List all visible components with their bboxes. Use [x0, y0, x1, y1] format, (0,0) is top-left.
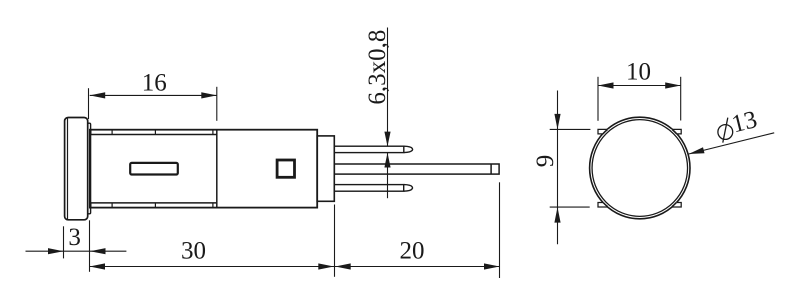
svg-text:6,3x0,8: 6,3x0,8	[364, 30, 391, 105]
body section divider	[216, 130, 218, 208]
faston terminal bottom	[334, 185, 412, 192]
anti-rotation lug upper-right	[671, 129, 682, 134]
dimension 3	[26, 220, 127, 271]
bezel step	[88, 123, 91, 214]
faston terminal top	[334, 146, 412, 152]
square window	[277, 160, 294, 177]
housing body	[90, 130, 317, 208]
dimension 20	[335, 182, 500, 278]
lens face line	[67, 118, 69, 219]
svg-text:16: 16	[142, 70, 167, 97]
ratchet band bottom line	[90, 202, 217, 204]
bezel inner circle	[592, 120, 688, 217]
lens flange (side view)	[65, 118, 88, 220]
rear collar	[317, 136, 334, 201]
anti-rotation lug lower-left	[598, 202, 609, 207]
diameter symbol	[718, 118, 733, 143]
bezel outer circle (front view)	[590, 117, 690, 219]
center terminal shaft	[334, 164, 499, 174]
svg-text:3: 3	[68, 224, 81, 251]
ratchet band top line	[90, 134, 217, 136]
dimension 6,3x0,8	[387, 28, 389, 199]
dimension 9	[550, 91, 591, 245]
svg-text:10: 10	[626, 58, 651, 85]
ratchet teeth ticks top	[91, 130, 213, 135]
svg-text:13: 13	[729, 106, 760, 138]
dimension 30	[90, 205, 335, 277]
anti-rotation lug lower-right	[670, 202, 681, 207]
diameter 13 leader	[689, 133, 775, 154]
svg-text:30: 30	[181, 238, 206, 265]
ratchet teeth ticks bottom	[91, 203, 213, 208]
anti-rotation lug upper-left	[598, 129, 609, 134]
svg-text:9: 9	[532, 155, 559, 168]
dimension 16	[89, 87, 217, 121]
dimension 10	[598, 77, 681, 121]
svg-text:20: 20	[400, 238, 425, 265]
label window	[130, 163, 178, 175]
